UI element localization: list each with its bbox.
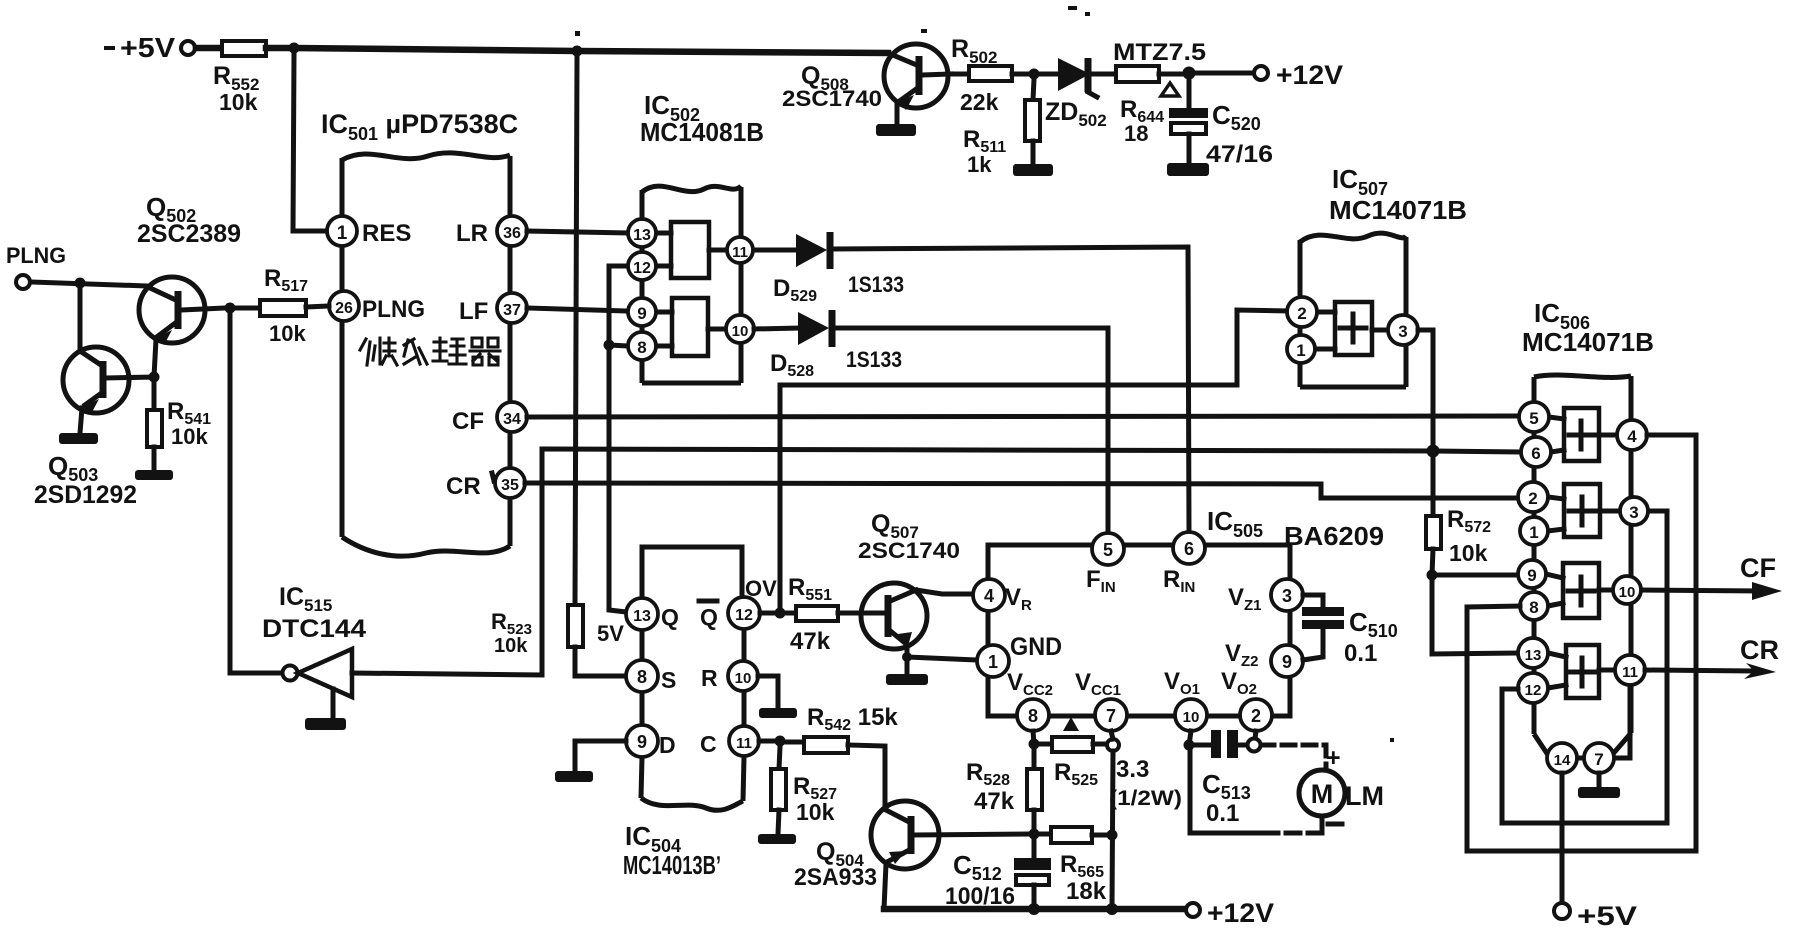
pin 10 IC505 VO1 <box>1164 668 1207 731</box>
terminal +5V bottom <box>1554 901 1637 931</box>
node junction pin11/R542/R527 <box>775 736 786 747</box>
resistor R552 10k <box>213 41 266 115</box>
svg-text:9: 9 <box>1282 652 1292 672</box>
wire dashed to motor plus <box>1261 745 1326 769</box>
ground Q503 emitter <box>59 433 98 444</box>
wire pin3 feedback loop to pin12 <box>1502 511 1667 823</box>
ground Q507 <box>886 674 928 685</box>
svg-text:6: 6 <box>1531 444 1540 463</box>
svg-text:10k: 10k <box>1449 540 1488 566</box>
node junction pin7 line/rail <box>1106 903 1118 915</box>
IC505 BA6209 box <box>988 506 1384 716</box>
node junction rail x577 <box>572 46 583 57</box>
svg-text:3: 3 <box>1629 503 1638 522</box>
pin 37 LF <box>459 293 527 325</box>
capacitor C512 100/16 <box>945 839 1051 910</box>
svg-text:2SC2389: 2SC2389 <box>137 220 241 248</box>
wire LR pin36 to IC502 pin13 <box>527 231 627 233</box>
terminal +12V bottom <box>1186 898 1274 928</box>
pin 12 IC502 <box>628 252 656 280</box>
svg-text:47/16: 47/16 <box>1206 141 1273 168</box>
svg-text:4: 4 <box>1627 427 1637 446</box>
pin 1 IC505 GND <box>977 633 1062 677</box>
node junction R572/pin9/pin13 <box>1427 570 1438 581</box>
svg-text:2: 2 <box>1297 304 1306 323</box>
pin 9 IC505 VZ2 <box>1225 640 1303 677</box>
marker triangle R644 <box>1161 83 1179 96</box>
wire pin14 down to +5V <box>1560 773 1565 902</box>
svg-text:MC14071B: MC14071B <box>1329 195 1467 225</box>
wire IC515 output up to node line <box>352 449 542 675</box>
pin 8 IC506 <box>1520 592 1548 620</box>
wire R541 to ground <box>152 447 157 470</box>
pin 2 IC506 <box>1518 482 1548 512</box>
svg-text:2: 2 <box>1528 489 1537 508</box>
wire R511 to ground <box>1031 141 1036 164</box>
wire junction down to pin1 RES <box>293 53 328 231</box>
svg-text:S: S <box>661 667 676 693</box>
svg-text:CR: CR <box>1740 635 1779 665</box>
wire R527 to ground <box>778 810 779 834</box>
svg-text:+12V: +12V <box>1276 60 1343 90</box>
wire LF pin37 to IC502 pin9 <box>527 308 628 311</box>
pin 13 IC502 <box>628 219 656 247</box>
svg-text:9: 9 <box>637 304 646 323</box>
pin 36 LR <box>456 216 527 247</box>
pin 11 IC504 (C) <box>700 726 759 757</box>
capacitor C520 47/16 <box>1169 100 1273 168</box>
wire motor return to VO1 <box>1190 750 1322 833</box>
terminal +12V <box>1254 60 1343 90</box>
transistor Q502 2SC2389 <box>137 192 241 377</box>
wire pin12 to R551 <box>760 611 796 616</box>
svg-text:11: 11 <box>732 244 748 261</box>
wire CR output <box>1645 635 1779 679</box>
svg-text:1S133: 1S133 <box>846 347 902 372</box>
svg-text:18: 18 <box>1124 121 1148 146</box>
svg-text:1k: 1k <box>967 152 992 177</box>
svg-text:36: 36 <box>503 225 521 242</box>
svg-text:MC14071B: MC14071B <box>1522 327 1654 357</box>
svg-text:26: 26 <box>335 300 353 317</box>
svg-text:13: 13 <box>633 227 651 244</box>
wire junction down to pin13 <box>1432 580 1516 654</box>
svg-text:12: 12 <box>1525 682 1542 699</box>
node junction C520 <box>1183 67 1196 80</box>
resistor R551 47k <box>788 574 838 655</box>
capacitor C510 0.1 <box>1302 595 1398 667</box>
resistor R502 22k <box>951 35 1012 115</box>
wire R572 to pin9 <box>1432 549 1516 575</box>
wire pin2 VO2 down to connector <box>1255 731 1256 739</box>
wire R502 to zener <box>1012 72 1058 77</box>
node junction Q503 base / R541 <box>149 372 160 383</box>
OR gate IC506d <box>1548 645 1615 698</box>
node junction R528/C512/R565/Q504 base <box>1029 829 1040 840</box>
ground R527 <box>758 834 796 844</box>
svg-text:3: 3 <box>1282 586 1292 606</box>
wire pin10 to ground <box>758 676 778 708</box>
pin 3 IC507 <box>1388 315 1418 345</box>
ground Q508 emitter <box>876 124 916 136</box>
wire pin8 down <box>1033 731 1034 744</box>
pin 35 CR <box>446 468 525 500</box>
terminal PLNG input <box>6 243 66 289</box>
IC501 uPD7538C outline <box>321 109 518 556</box>
svg-text:10k: 10k <box>494 635 528 657</box>
svg-text:8: 8 <box>637 667 647 687</box>
svg-text:2SA933: 2SA933 <box>794 864 877 891</box>
svg-text:3: 3 <box>1398 322 1407 341</box>
svg-text:11: 11 <box>736 735 752 752</box>
pin 4 IC506 <box>1617 420 1647 450</box>
pin 6 IC505 RIN <box>1163 532 1205 596</box>
resistor R523 10k <box>491 605 583 657</box>
wire CF pin34 to IC506 pin5 <box>527 416 1519 417</box>
stray scan marks <box>104 6 1394 742</box>
ground IC506 pin7 <box>1578 787 1620 798</box>
svg-text:DTC144: DTC144 <box>262 615 366 643</box>
svg-text:LR: LR <box>456 220 488 247</box>
resistor R528 47k <box>966 749 1042 834</box>
node junction pin8/R525/R528 <box>1029 739 1040 750</box>
OR gate IC506c <box>1546 563 1613 618</box>
pin 9 IC506 <box>1518 560 1546 588</box>
node junction x609 pin8 <box>604 340 615 351</box>
wire junction down to C520 <box>1187 74 1192 109</box>
pin 1 RES <box>327 216 411 247</box>
svg-text:2SC1740: 2SC1740 <box>858 538 960 563</box>
pin 9 IC502 <box>628 298 656 326</box>
svg-text:BA6209: BA6209 <box>1284 521 1384 551</box>
node junction at x1433 <box>1427 445 1440 458</box>
svg-text:47k: 47k <box>790 628 831 655</box>
transistor Q504 2SA933 <box>794 801 1028 909</box>
node junction Q502 base / R517 <box>225 303 236 314</box>
svg-text:2SD1292: 2SD1292 <box>34 481 137 509</box>
pin 2 IC507 <box>1287 297 1317 327</box>
resistor R644 18 (MTZ7.5) <box>1113 39 1206 146</box>
svg-text:CR: CR <box>446 473 481 500</box>
capacitor C513 0.1 <box>1189 730 1251 827</box>
svg-text:LM: LM <box>1345 781 1384 811</box>
wire +12V bottom rail <box>884 906 1186 913</box>
AND gate IC502b <box>657 298 725 356</box>
pin 11 IC506 <box>1615 655 1645 685</box>
pin 7 IC506 <box>1584 743 1614 773</box>
svg-text:Q: Q <box>661 604 679 630</box>
ground IC515 <box>305 718 346 730</box>
svg-text:8: 8 <box>1529 598 1538 617</box>
OR gate IC507a <box>1315 302 1388 355</box>
svg-text:9: 9 <box>1527 566 1536 585</box>
svg-text:11: 11 <box>1622 664 1638 681</box>
resistor R572 10k <box>1426 506 1491 566</box>
svg-text:D: D <box>659 732 676 758</box>
resistor R525 3.3 (1/2W) <box>1040 737 1182 810</box>
motor LM <box>1299 770 1384 816</box>
svg-text:1: 1 <box>1296 341 1305 360</box>
pin 26 PLNG <box>329 291 425 323</box>
node junction R552/rail <box>289 43 300 54</box>
svg-text:CF: CF <box>452 408 484 435</box>
wire junction down to R527 <box>779 747 780 769</box>
wire R552 to rail junction <box>266 45 294 52</box>
svg-text:6: 6 <box>1184 539 1194 559</box>
svg-text:18k: 18k <box>1066 878 1107 905</box>
svg-text:4: 4 <box>984 586 994 606</box>
wire junction down to R511 <box>1033 79 1034 100</box>
wire R551 to Q507 base <box>838 611 862 616</box>
svg-text:2: 2 <box>1251 706 1261 726</box>
pin 12 IC504 (Qbar) <box>699 597 760 630</box>
IC506 MC14071B outline <box>1522 298 1654 758</box>
svg-text:13: 13 <box>1525 647 1542 664</box>
pin 3 IC506 <box>1620 497 1648 525</box>
wire D528 to IC505 pin5 <box>835 328 1108 535</box>
svg-text:22k: 22k <box>960 89 999 115</box>
svg-text:34: 34 <box>503 411 521 428</box>
wire junction down to IC515 input <box>230 313 283 673</box>
pin 5 IC506 <box>1519 402 1549 432</box>
wire Q508 base to R502 <box>951 72 969 77</box>
svg-text:1S133: 1S133 <box>848 272 904 297</box>
svg-text:+5V: +5V <box>120 32 175 63</box>
node junction Q507 emitter <box>902 652 912 662</box>
resistor R511 1k <box>963 100 1040 177</box>
wire junction to +12V terminal <box>1189 71 1254 76</box>
svg-text:PLNG: PLNG <box>362 296 425 323</box>
svg-text:0.1: 0.1 <box>1206 800 1239 827</box>
svg-text:+12V: +12V <box>1207 898 1274 928</box>
wire R523 to IC504 pin8 <box>575 647 626 676</box>
pin 14 IC506 <box>1547 743 1577 773</box>
wire pin10 VO1 down <box>1189 731 1191 745</box>
wire pin11 to D529 <box>754 248 796 253</box>
svg-text:GND: GND <box>1010 633 1062 661</box>
terminal +5V <box>120 32 195 63</box>
node junction C512/rail <box>1028 903 1040 915</box>
ground R511 <box>1013 164 1053 176</box>
wire CR pin35 to IC506 pin2 <box>525 483 1517 498</box>
resistor R517 10k <box>260 265 308 346</box>
IC504 MC14013B outline with OV jumper top <box>623 547 744 880</box>
svg-text:LF: LF <box>459 298 488 325</box>
svg-text:10: 10 <box>735 670 752 687</box>
wire IC502 pin12 and pin8 to bus x609 <box>609 266 628 612</box>
wire zener to R644 <box>1092 72 1116 77</box>
svg-text:1: 1 <box>1529 523 1538 542</box>
node junction pin7/R565 <box>1107 830 1118 841</box>
AND gate IC502a <box>657 222 726 278</box>
wire 5V rail down to R523 <box>575 56 577 605</box>
wire Q507 emitter to ground <box>905 657 910 674</box>
pin 8 IC505 VCC2 <box>1007 669 1053 731</box>
wire pin7 to ground <box>1597 773 1602 787</box>
svg-text:47k: 47k <box>974 788 1015 815</box>
svg-text:M: M <box>1311 779 1334 809</box>
pin 7 IC505 VCC1 <box>1075 669 1127 731</box>
wire pin7 down to R565 and +12V rail <box>1111 731 1113 908</box>
ground IC504 pin9 <box>555 771 593 782</box>
wire R542 to Q504 collector <box>848 745 885 806</box>
svg-text:MC14013Bʼ: MC14013Bʼ <box>623 850 721 880</box>
node junction PLNG <box>75 278 86 289</box>
wire pin12 node up and right to IC507 pin2 <box>780 310 1288 608</box>
svg-text:37: 37 <box>503 302 521 319</box>
wire pin10 to D528 <box>754 328 798 329</box>
svg-text:10k: 10k <box>219 89 258 115</box>
svg-text:(1/2W): (1/2W) <box>1109 787 1182 810</box>
svg-text:10: 10 <box>1619 584 1636 601</box>
wire D529 to IC505 pin6 <box>833 247 1189 533</box>
wire junction to R517 <box>236 306 260 311</box>
svg-text:1: 1 <box>988 652 998 672</box>
diode D529 1S133 <box>773 232 904 305</box>
svg-text:MTZ7.5: MTZ7.5 <box>1113 39 1206 66</box>
pin 6 IC506 <box>1521 437 1551 467</box>
pin 13 IC504 (Q) <box>626 598 679 630</box>
node small circle pin7/R525 <box>1107 739 1119 751</box>
svg-text:5V: 5V <box>597 621 624 646</box>
pin 34 CF <box>452 402 527 435</box>
marker triangle R525 <box>1063 717 1079 731</box>
pin 8 IC504 (S) <box>626 660 676 693</box>
pin 9 IC504 (D) <box>626 725 676 758</box>
svg-text:10: 10 <box>732 323 749 340</box>
wire node line to IC506 pin 6 <box>542 449 1519 452</box>
svg-text:MC14081B: MC14081B <box>640 117 764 147</box>
diode D528 1S133 <box>770 310 902 380</box>
svg-text:RES: RES <box>362 220 411 247</box>
wire CF output <box>1642 553 1782 600</box>
pin 13 IC506 <box>1518 638 1548 668</box>
svg-text:CF: CF <box>1740 553 1776 583</box>
OR gate IC506b <box>1548 484 1620 537</box>
svg-text:13: 13 <box>633 608 651 625</box>
wire C520 to ground <box>1187 134 1192 163</box>
svg-text:35: 35 <box>501 477 519 494</box>
svg-text:12: 12 <box>633 260 651 277</box>
wire pin9 to ground <box>575 741 626 771</box>
wire +5V top rail <box>294 48 888 53</box>
svg-text:10k: 10k <box>269 321 306 346</box>
svg-text:10: 10 <box>1183 709 1200 726</box>
IC502 MC14081B outline <box>640 90 764 383</box>
resistor R527 10k <box>771 769 837 825</box>
pin 10 IC506 <box>1613 576 1641 604</box>
svg-text:+5V: +5V <box>1577 901 1637 931</box>
IC507 MC14071B outline <box>1300 164 1467 387</box>
wire pin3 down to R572 <box>1418 330 1433 516</box>
svg-text:10k: 10k <box>171 424 208 449</box>
node junction VO1/C513/motor <box>1184 740 1195 751</box>
terminal VO2 connector <box>1248 739 1261 752</box>
svg-text:9: 9 <box>637 732 647 752</box>
svg-text:7: 7 <box>1106 706 1116 726</box>
resistor R565 18k <box>1040 827 1107 905</box>
pin 8 IC502 <box>628 332 656 360</box>
pin 1 IC507 <box>1287 335 1315 363</box>
label microprocessor kanji <box>360 338 500 365</box>
svg-text:1: 1 <box>337 223 348 244</box>
wire Q507 emitter to IC505 pin1 <box>907 657 977 660</box>
wire R517 to pin 26 <box>306 306 329 307</box>
svg-text:7: 7 <box>1594 750 1603 769</box>
pin 3 IC505 VZ1 <box>1228 579 1303 614</box>
svg-text:R: R <box>701 665 718 691</box>
svg-text:8: 8 <box>1028 706 1038 726</box>
pin 10 IC504 (R) <box>701 661 758 691</box>
resistor R542 15k <box>786 704 898 753</box>
wire pin11 to R542 junction <box>759 739 774 744</box>
node junction pin12 <box>775 608 786 619</box>
svg-text:R542 15k: R542 15k <box>807 704 898 734</box>
ground IC504 pin10 <box>759 708 797 718</box>
svg-text:+: + <box>1326 744 1341 772</box>
wire junction to pin8 <box>609 345 628 346</box>
wire PLNG junction down to Q503 collector <box>80 283 101 365</box>
wire junction to R541 <box>152 382 157 410</box>
label minus <box>1328 822 1342 827</box>
pin 10 IC502 <box>726 315 754 343</box>
svg-text:5: 5 <box>1529 409 1538 428</box>
svg-text:0.1: 0.1 <box>1344 640 1377 667</box>
zener diode ZD502 <box>1045 58 1107 130</box>
pin 12 IC506 <box>1518 673 1548 703</box>
ground R541 <box>135 470 173 480</box>
svg-text:PLNG: PLNG <box>6 243 66 268</box>
transistor Q508 2SC1740 <box>782 44 951 124</box>
pin 11 IC502 <box>727 237 753 263</box>
svg-text:10k: 10k <box>796 799 835 825</box>
ground C520 <box>1167 163 1209 176</box>
svg-text:14: 14 <box>1554 752 1571 769</box>
pin 5 IC505 FIN <box>1086 533 1124 596</box>
pin 4 IC505 VR <box>973 579 1032 614</box>
OR gate IC506a <box>1549 408 1617 461</box>
svg-text:5: 5 <box>1103 540 1113 560</box>
transistor Q507 2SC1740 <box>858 510 973 657</box>
resistor R541 10k <box>147 398 211 449</box>
wire +5V terminal to R552 <box>196 45 222 52</box>
svg-text:2SC1740: 2SC1740 <box>782 86 882 111</box>
svg-text:3.3: 3.3 <box>1116 756 1149 783</box>
transistor Q503 2SD1292 <box>34 347 154 509</box>
pin 1 IC506 <box>1520 517 1548 545</box>
svg-text:Q: Q <box>700 604 718 630</box>
wire pin11 down to pin7 <box>1614 685 1630 758</box>
wire PLNG to Q502 <box>31 282 148 286</box>
svg-text:8: 8 <box>637 338 646 357</box>
node junction R502/R511 <box>1029 69 1040 80</box>
pin 2 IC505 VO2 <box>1221 668 1272 731</box>
inverter IC515 DTC144 <box>262 583 366 718</box>
svg-text:12: 12 <box>735 607 753 624</box>
wire pin4 feedback loop to pin8 <box>1467 435 1696 851</box>
svg-text:C: C <box>700 731 717 757</box>
wire R644 to C520 junction <box>1159 72 1186 77</box>
